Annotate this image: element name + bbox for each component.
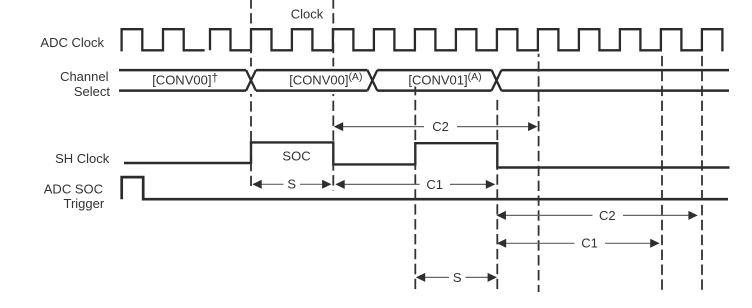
wire dashed line F x=662 — [661, 54, 663, 292]
node bus crossover 1 — [246, 70, 256, 91]
svg-text:Clock: Clock — [291, 6, 324, 21]
node arrow C1 row4 — [497, 236, 660, 251]
svg-text:C2: C2 — [599, 208, 616, 223]
node arrow C1 row2 — [335, 177, 495, 192]
wire dashed line B x=333.3 upper part — [332, 0, 334, 67]
wire Channel Select bus bottom line — [119, 89, 729, 92]
svg-text:ADC SOC: ADC SOC — [44, 182, 103, 197]
wire dashed line C x=415.3 — [414, 87, 416, 293]
node arrow C2 row1 — [334, 119, 538, 135]
svg-text:C1: C1 — [581, 236, 598, 251]
node bus crossover 2 — [368, 70, 378, 91]
wire ADC Clock waveform run 2 — [210, 29, 722, 51]
wire ADC Clock waveform run 1 — [122, 29, 205, 51]
wire dashed line A x=251 lower part — [250, 94, 252, 186]
node arrow C2 row3 — [497, 208, 698, 223]
node arrow S row5 — [416, 270, 497, 285]
node bus crossover 3 — [492, 70, 502, 91]
svg-text:Channel: Channel — [60, 69, 109, 84]
wire SH Clock waveform — [124, 142, 730, 167]
svg-text:ADC Clock: ADC Clock — [40, 35, 104, 50]
svg-text:C1: C1 — [426, 177, 443, 192]
wire dashed line B x=333.3 lower part — [332, 94, 334, 191]
wire dashed line A x=251 upper part — [250, 0, 252, 67]
svg-text:C2: C2 — [432, 119, 449, 134]
node arrow S row2 — [252, 177, 331, 192]
wire Channel Select bus top line — [119, 69, 729, 72]
wire dashed line E x=538.6 — [538, 54, 540, 292]
svg-text:SH Clock: SH Clock — [55, 151, 110, 166]
svg-text:Select: Select — [74, 84, 111, 99]
svg-text:S: S — [453, 270, 462, 285]
svg-text:[CONV00]†: [CONV00]† — [152, 70, 218, 87]
svg-text:SOC: SOC — [282, 148, 310, 163]
svg-text:Trigger: Trigger — [63, 196, 104, 211]
wire ADC SOC Trigger waveform — [122, 177, 728, 199]
svg-text:S: S — [287, 177, 296, 192]
wire dashed line G x=702 — [701, 54, 703, 292]
wire dashed line D x=497.3 — [496, 97, 498, 292]
